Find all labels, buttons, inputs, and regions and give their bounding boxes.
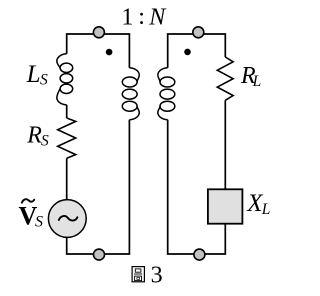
svg-text:L: L	[261, 201, 271, 218]
resistor RL zigzag	[217, 57, 233, 100]
source VS circle	[48, 200, 86, 238]
wire left-loop top: from LS top up, across to primary top	[67, 34, 130, 68]
svg-text:S: S	[41, 133, 49, 150]
caption: character 圖 drawn as glyph	[132, 267, 144, 282]
wire right-loop top: from secondary top up, across to RL top	[168, 34, 226, 68]
resistor RS zigzag	[58, 118, 76, 158]
node terminal bottom-right	[194, 249, 205, 260]
wire left branch between LS and RS	[66, 105, 68, 118]
svg-text:N: N	[148, 5, 167, 31]
svg-text:L: L	[252, 73, 262, 90]
wire right branch between RL and XL	[224, 100, 226, 189]
node terminal bottom-left	[94, 249, 105, 260]
polarity dot primary	[106, 49, 113, 56]
node terminal top-left	[93, 27, 104, 38]
svg-text:3: 3	[151, 262, 163, 288]
wire left-loop bottom: from source bottom, across to primary bottom	[67, 120, 130, 254]
node terminal top-right	[193, 27, 204, 38]
source VS sine tilde	[59, 216, 78, 221]
svg-text:S: S	[40, 71, 48, 88]
reactance XL box	[208, 189, 243, 223]
polarity dot secondary	[184, 49, 191, 56]
wire left branch between RS and source	[66, 158, 68, 199]
transformer primary coil (right side of left loop)	[122, 68, 139, 120]
transformer secondary coil (left side of right loop)	[158, 68, 175, 120]
inductor LS coil	[57, 54, 73, 105]
svg-text::: :	[138, 4, 145, 30]
svg-text:1: 1	[121, 5, 133, 31]
wire right-loop bottom: from secondary bottom, across to XL bottom	[168, 120, 226, 254]
svg-text:R: R	[26, 123, 42, 149]
svg-text:L: L	[26, 61, 41, 88]
svg-text:S: S	[35, 214, 43, 231]
